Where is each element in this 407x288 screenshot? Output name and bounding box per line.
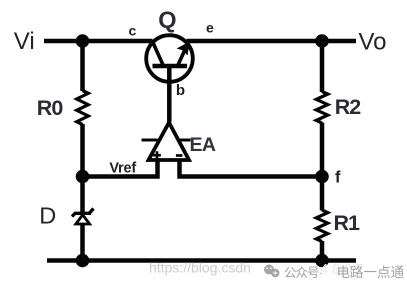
op-amp EA plus input mark <box>153 151 161 159</box>
node junction bottom-right <box>315 254 329 268</box>
transistor Q collector line <box>152 41 164 67</box>
svg-text:R2: R2 <box>335 95 362 119</box>
transistor Q (circle) <box>146 35 193 82</box>
transistor Q emitter line <box>178 42 189 66</box>
svg-text:f: f <box>335 169 341 187</box>
svg-text:EA: EA <box>190 134 216 156</box>
wire diode to bottom rail <box>80 225 85 261</box>
svg-text:Q: Q <box>158 7 176 33</box>
svg-text:https://blog.csdn: https://blog.csdn <box>149 260 251 276</box>
diode D zener tick left (down) <box>72 214 75 217</box>
svg-text:Vref: Vref <box>109 161 136 177</box>
svg-text:D: D <box>39 202 56 228</box>
svg-text:·: · <box>319 266 323 280</box>
node junction bottom-left <box>76 254 90 268</box>
svg-text:e: e <box>206 20 214 36</box>
svg-text:Vi: Vi <box>14 28 35 55</box>
svg-text:c: c <box>129 22 137 38</box>
wire top-left (Vi to Q collector) <box>44 39 153 44</box>
transistor Q base bar <box>153 64 188 69</box>
diode D triangle (anode, pointing up) <box>76 215 90 224</box>
svg-text:电路一点通: 电路一点通 <box>337 265 405 280</box>
svg-text:R0: R0 <box>37 96 64 120</box>
svg-text:Vo: Vo <box>359 29 387 56</box>
resistor R2 <box>316 92 328 124</box>
svg-text:b: b <box>176 82 185 99</box>
svg-text:R1: R1 <box>334 211 361 235</box>
watermark wechat icon big bubble <box>264 265 274 275</box>
wire R2 to node f <box>320 123 325 211</box>
svg-text:公众号: 公众号 <box>284 266 319 280</box>
wire right branch: top node to R2 <box>320 41 325 92</box>
wire R1 to bottom rail <box>320 241 325 261</box>
wire left branch: top node to R0 <box>80 41 85 91</box>
diode D zener tick right (up) <box>90 209 94 214</box>
transistor Q emitter arrowhead <box>177 42 190 56</box>
op-amp EA right side tick <box>179 139 191 142</box>
wire op-amp minus input to node f <box>180 159 323 177</box>
wire bottom rail <box>47 258 356 263</box>
wire Vref node to op-amp plus input <box>83 159 158 177</box>
node junction top-left <box>76 34 90 48</box>
resistor R0 <box>77 91 89 125</box>
node junction f <box>315 170 329 184</box>
watermark wechat icon small bubble <box>271 269 279 277</box>
wire top-right (Q emitter to Vo) <box>187 39 357 44</box>
node junction top-right <box>315 34 329 48</box>
op-amp EA minus input mark <box>176 154 183 157</box>
diode D (zener) cathode bar <box>74 212 91 215</box>
resistor R1 <box>316 210 328 242</box>
op-amp EA left side tick <box>142 139 158 142</box>
node junction Vref <box>76 170 90 184</box>
wire R0 to Vref node and diode <box>80 124 85 212</box>
wire Q base to op-amp output <box>167 66 172 122</box>
op-amp EA triangle <box>149 123 190 161</box>
